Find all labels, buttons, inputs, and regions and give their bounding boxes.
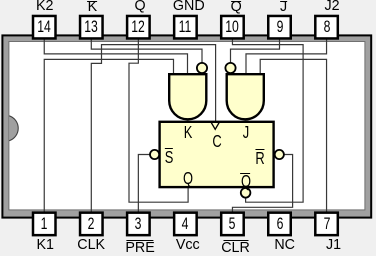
IC body inner white area: [9, 42, 365, 210]
pin 5 box: [221, 213, 244, 236]
wire PRE: pin3 to S-bar bubble: [138, 155, 152, 213]
pin 2 box: [80, 213, 103, 236]
pin 5 label CLR-bar: [221, 241, 250, 255]
flip-flop box U1: [160, 122, 274, 187]
pin number 9: [276, 19, 283, 35]
notch: [9, 116, 18, 141]
pin 11 box: [174, 16, 197, 39]
pin 4 label Vcc: [176, 238, 200, 252]
wire J-bar: pin9 to right gate bubble: [231, 39, 280, 63]
wire K-bar: pin13 to left gate bubble: [91, 39, 202, 63]
flip-flop output label Q: [183, 170, 193, 187]
wire K1: pin1 to left gate outer input: [44, 59, 173, 212]
pin number 14: [37, 19, 51, 35]
AND gate left (K gate): [169, 74, 206, 119]
pin 9 box: [268, 16, 291, 39]
clock edge triangle: [211, 123, 219, 130]
flip-flop input label K: [184, 124, 193, 141]
pin number 7: [323, 216, 330, 232]
pin 8 label J2: [324, 0, 339, 13]
pin 2 label CLK: [77, 238, 105, 252]
pin 12 label Q: [134, 0, 145, 13]
pin 10 box: [221, 16, 244, 39]
pin number 6: [276, 216, 283, 232]
flip-flop clear label R-bar: [256, 150, 265, 167]
AND gate right (J gate): [227, 74, 264, 119]
pin number 10: [226, 19, 240, 35]
pin 4 box: [174, 213, 197, 236]
pin 14 label K2: [36, 0, 54, 13]
pin number 3: [135, 216, 142, 232]
flip-flop clock label C: [212, 133, 221, 150]
pin 13 label K-bar: [88, 0, 98, 14]
flip-flop preset label S-bar: [164, 149, 173, 166]
pin 1 box: [33, 213, 56, 236]
pin number 12: [132, 19, 146, 35]
R-bar bubble: [275, 150, 284, 159]
pin number 13: [85, 19, 99, 35]
wire J2: pin8 to right gate inner input: [246, 39, 327, 75]
pin 12 box: [127, 16, 150, 39]
wire CLK: pin2 to C input: [91, 45, 215, 212]
IC body outer outline: [2, 35, 371, 217]
pin 11 label GND: [173, 0, 205, 13]
wire CLR: pin5 to R-bar bubble: [232, 155, 292, 213]
pin 9 label J-bar: [280, 0, 287, 14]
Q-bar bubble: [241, 188, 251, 198]
flip-flop input label J: [243, 124, 249, 141]
pin 7 label J1: [326, 238, 341, 252]
pin number 11: [179, 19, 192, 35]
pin number 4: [182, 216, 189, 232]
pin 3 label PRE-bar: [125, 241, 154, 255]
pin 14 box: [33, 16, 56, 39]
pin 13 box: [80, 16, 103, 39]
pin number 1: [41, 216, 48, 232]
pin number 5: [229, 216, 236, 232]
pin 3 box: [127, 213, 150, 236]
pin number 8: [323, 19, 330, 35]
wire Q: pin12 to Q output: [129, 39, 188, 202]
flip-flop output label Q-bar: [240, 173, 250, 190]
pin number 2: [88, 216, 95, 232]
pin 6 label NC: [274, 238, 295, 252]
bubble on right gate (J-bar input): [225, 63, 235, 73]
pin 8 box: [315, 16, 338, 39]
pin 10 label Q-bar: [231, 0, 242, 14]
wire Q-bar: pin10 to Q-bar bubble: [232, 39, 303, 202]
wire K2: pin14 to left gate inner input: [44, 39, 187, 75]
pin 7 box: [315, 213, 338, 236]
bubble on left gate (K-bar input): [197, 63, 207, 73]
pin 1 label K1: [36, 238, 54, 252]
wire J1: pin7 to right gate outer input: [260, 59, 326, 212]
pin 6 box: [268, 213, 291, 236]
S-bar bubble: [150, 150, 159, 159]
